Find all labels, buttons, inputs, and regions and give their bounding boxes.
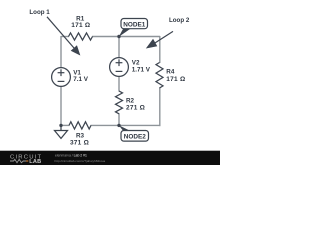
voltage source V1 (52, 68, 71, 87)
watermark bar (0, 151, 220, 165)
node NODE2 callout tail (119, 125, 131, 131)
svg-text:R2: R2 (126, 98, 135, 105)
resistor R2 (116, 91, 123, 114)
wire middle vertical V2-to-R2 (118, 76, 120, 92)
wire top horizontal left segment (61, 36, 69, 38)
svg-text:NODE1: NODE1 (123, 22, 145, 29)
wire middle vertical R2-to-bottom (118, 113, 120, 125)
svg-text:371 Ω: 371 Ω (70, 140, 89, 147)
junction dot bottom-left (59, 124, 62, 127)
junction dot top-middle (117, 35, 120, 38)
circuitlab logo zigzag (10, 159, 26, 162)
wire right vertical lower (159, 88, 161, 127)
node NODE1 callout tail (119, 28, 132, 37)
arrow loop 1 head (72, 46, 80, 54)
svg-text:Loop 2: Loop 2 (169, 17, 190, 24)
wire middle vertical upper (118, 37, 120, 59)
wire bottom horizontal left segment (61, 124, 70, 126)
junction dot bottom-middle (117, 124, 120, 127)
wire left vertical lower (60, 86, 62, 126)
svg-text:http://circuitlab.com/c/7jahwy: http://circuitlab.com/c/7jahwyh82txua (55, 159, 106, 163)
svg-text:1.71 V: 1.71 V (132, 66, 151, 73)
resistor R1 (69, 33, 93, 40)
node NODE2 box (121, 131, 149, 142)
svg-text:7.1 V: 7.1 V (73, 76, 89, 83)
arrow loop 1 line (47, 17, 74, 49)
arrow loop 2 line (155, 31, 173, 43)
resistor R4 (156, 63, 163, 89)
wire bottom horizontal right segment (91, 124, 161, 126)
node NODE1 box (121, 19, 148, 29)
svg-text:elenmarva / Lab 2 #1: elenmarva / Lab 2 #1 (55, 154, 87, 158)
arrow loop 2 head (147, 40, 157, 48)
wire top horizontal right segment (92, 36, 160, 38)
svg-text:Loop 1: Loop 1 (29, 9, 50, 16)
svg-text:R3: R3 (76, 133, 85, 140)
svg-text:171 Ω: 171 Ω (71, 22, 90, 29)
svg-text:R4: R4 (166, 69, 175, 76)
circuitlab logo zigzag orange tip (26, 160, 28, 162)
voltage source V2 (110, 58, 129, 77)
wire left vertical upper (60, 36, 62, 68)
resistor R3 (69, 122, 91, 129)
svg-text:171 Ω: 171 Ω (166, 76, 185, 83)
svg-text:LAB: LAB (29, 159, 41, 165)
svg-text:271 Ω: 271 Ω (126, 105, 145, 112)
svg-text:NODE2: NODE2 (124, 134, 146, 141)
wire right vertical upper (159, 36, 161, 63)
ground (55, 125, 68, 138)
